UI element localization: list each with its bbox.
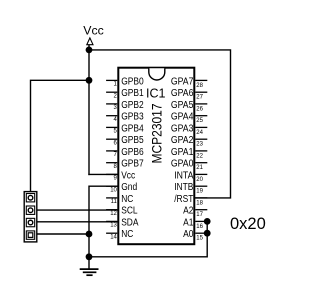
svg-text:INTA: INTA (174, 170, 193, 181)
svg-text:24: 24 (196, 130, 203, 136)
svg-text:20: 20 (196, 177, 203, 183)
svg-text:15: 15 (196, 236, 203, 242)
svg-text:19: 19 (196, 189, 203, 195)
svg-text:GPB0: GPB0 (121, 76, 144, 87)
svg-text:21: 21 (196, 165, 203, 171)
svg-text:22: 22 (196, 153, 203, 159)
svg-text:GPB5: GPB5 (121, 135, 144, 146)
svg-text:17: 17 (196, 212, 203, 218)
svg-text:28: 28 (196, 83, 203, 89)
svg-text:0x20: 0x20 (230, 215, 266, 233)
svg-text:GPB7: GPB7 (121, 159, 144, 170)
svg-text:A1: A1 (183, 217, 194, 228)
svg-text:NC: NC (121, 229, 133, 240)
svg-text:GPB1: GPB1 (121, 88, 144, 99)
svg-text:Vcc: Vcc (83, 23, 104, 37)
svg-text:GPA5: GPA5 (171, 100, 194, 111)
svg-text:25: 25 (196, 118, 203, 124)
svg-text:GPA2: GPA2 (171, 135, 194, 146)
svg-text:GPA0: GPA0 (171, 159, 194, 170)
svg-text:GPB4: GPB4 (121, 123, 144, 134)
svg-text:26: 26 (196, 106, 203, 112)
svg-text:IC1: IC1 (146, 86, 166, 100)
svg-text:NC: NC (121, 194, 133, 205)
svg-text:A0: A0 (183, 229, 194, 240)
svg-text:13: 13 (110, 223, 117, 229)
svg-text:INTB: INTB (174, 182, 193, 193)
svg-text:GPA6: GPA6 (171, 88, 194, 99)
svg-text:GPB6: GPB6 (121, 147, 144, 158)
svg-text:Gnd: Gnd (121, 182, 137, 193)
svg-text:GPA1: GPA1 (171, 147, 194, 158)
svg-text:A2: A2 (183, 206, 194, 217)
svg-text:GPB2: GPB2 (121, 100, 144, 111)
svg-text:GPA3: GPA3 (171, 123, 194, 134)
svg-text:12: 12 (110, 211, 117, 217)
svg-text:14: 14 (110, 235, 117, 241)
svg-text:SDA: SDA (121, 217, 139, 228)
svg-text:16: 16 (196, 224, 203, 230)
svg-text:/RST: /RST (174, 194, 193, 205)
svg-text:18: 18 (196, 200, 203, 206)
svg-text:GPA4: GPA4 (171, 112, 194, 123)
svg-text:SCL: SCL (121, 206, 138, 217)
svg-text:MCP23017: MCP23017 (148, 103, 164, 163)
svg-text:23: 23 (196, 142, 203, 148)
svg-text:GPB3: GPB3 (121, 112, 144, 123)
svg-text:10: 10 (110, 188, 117, 194)
svg-text:11: 11 (111, 199, 118, 205)
svg-text:GPA7: GPA7 (171, 76, 194, 87)
svg-text:Vcc: Vcc (121, 170, 135, 181)
svg-text:27: 27 (196, 95, 203, 101)
